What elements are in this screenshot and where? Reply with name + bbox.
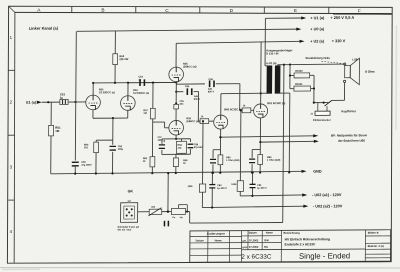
- svg-text:100n: 100n: [157, 140, 163, 142]
- svg-text:Ü 130 / 46: Ü 130 / 46: [266, 51, 279, 55]
- svg-text:1/2 E83CC (a): 1/2 E83CC (a): [99, 91, 115, 94]
- wire V6 grid riser: [239, 84, 241, 111]
- wire C53 to SRPP node: [146, 81, 177, 83]
- svg-text:07.2002: 07.2002: [249, 245, 259, 249]
- svg-text:(E88CC (a)): (E88CC (a)): [183, 65, 197, 68]
- svg-text:gez.: gez.: [242, 239, 247, 242]
- svg-text:D: D: [230, 8, 234, 14]
- node V6 anode: [260, 92, 262, 94]
- input arrow E1: [37, 101, 42, 104]
- svg-text:Name: Name: [215, 238, 223, 242]
- trimmer P1 10k: [149, 209, 162, 214]
- column divider tick: [328, 7, 330, 13]
- node BP measurement 1: [219, 136, 221, 138]
- node input/R51: [47, 101, 49, 103]
- resistor R5121: [290, 88, 294, 90]
- svg-text:GND: GND: [313, 170, 322, 174]
- svg-text:Blatt-Nr. 4 (a): Blatt-Nr. 4 (a): [368, 244, 384, 248]
- node R54/GND: [95, 172, 97, 174]
- svg-text:1µ 400 V: 1µ 400 V: [217, 187, 227, 190]
- svg-text:R5121: R5121: [295, 83, 303, 86]
- component C56: [174, 104, 179, 109]
- wire V5 grid riser: [197, 92, 199, 122]
- resistor R67: [237, 181, 243, 192]
- node V5 grid bias: [202, 120, 204, 122]
- measurement line BP 1: [219, 136, 314, 137]
- bias riser V5 grid: [202, 121, 204, 184]
- long vertical wire x=75 (+U0 branch): [74, 31, 77, 160]
- svg-text:Bezeichnung: Bezeichnung: [284, 231, 301, 235]
- capacitor C58 (cathode bypass 2): [189, 139, 191, 142]
- svg-text:Störableitung Heko: Störableitung Heko: [305, 56, 330, 60]
- -U02 (a1) rail: [240, 194, 303, 197]
- triode V3 SRPP upper: [169, 67, 184, 82]
- resistor R57 (V4 grid leak): [152, 83, 154, 109]
- title block outline: [190, 230, 391, 263]
- svg-text:1M: 1M: [143, 112, 146, 115]
- svg-text:100µ: 100µ: [118, 148, 124, 151]
- corner diagonal top-left: [9, 6, 15, 12]
- scan smudge right edge: [395, 25, 398, 130]
- headphone jack switch arm: [325, 100, 332, 106]
- svg-text:+ 250 V 0,5 A: + 250 V 0,5 A: [330, 15, 354, 20]
- row divider tick: [8, 199, 14, 201]
- grid stopper network C56: [175, 92, 177, 121]
- node R52/anode bus: [114, 82, 116, 84]
- output tube V6 6C33C: [254, 104, 268, 118]
- bias riser V6 grid: [239, 110, 242, 180]
- svg-text:100k: 100k: [231, 184, 237, 186]
- capacitor C52 (cathode bypass): [112, 140, 114, 145]
- title block horizontals right sub-block: [365, 235, 390, 237]
- svg-text:BP: Meßpunkte für Strom: BP: Meßpunkte für Strom: [331, 133, 368, 137]
- svg-text:+ U2 (a): + U2 (a): [310, 39, 325, 43]
- svg-text:1 Ohm (3W): 1 Ohm (3W): [267, 159, 281, 162]
- svg-text:C54: C54: [185, 85, 190, 88]
- GK wire to network: [138, 211, 150, 213]
- svg-text:E1 (a): E1 (a): [26, 101, 37, 105]
- svg-text:1/2 E83CC (a): 1/2 E83CC (a): [133, 92, 149, 95]
- svg-text:100k: 100k: [187, 186, 193, 188]
- svg-text:Datum: Datum: [196, 238, 205, 242]
- svg-text:gepr.: gepr.: [242, 246, 248, 249]
- transformer primary top lead to +U1: [264, 18, 266, 65]
- secondary top lead: [277, 65, 279, 66]
- resistor R59: [175, 154, 177, 158]
- wire R51 branch down: [50, 102, 52, 125]
- node GK/GND: [167, 172, 169, 174]
- node V4 anode: [175, 102, 177, 104]
- capacitor C63: [252, 148, 260, 150]
- svg-text:C55: C55: [208, 78, 213, 81]
- column divider tick: [71, 7, 73, 13]
- resistor R66: [199, 184, 205, 192]
- +U2 rail: [176, 41, 300, 43]
- scan edge shadow at bottom: [0, 267, 400, 269]
- wire to R54: [96, 139, 113, 141]
- anode bus wire y=82: [93, 81, 176, 83]
- +U1 rail: [265, 17, 302, 19]
- jack feed wire: [314, 102, 330, 104]
- capacitor C50 (decoupling electrolytic): [72, 162, 79, 163]
- cathode join V1-V2: [92, 110, 94, 119]
- GND rail: [51, 171, 302, 174]
- V3 anode riser to +U2: [175, 43, 177, 67]
- anode wire to transformer primary: [221, 92, 267, 94]
- inner frame line right of row numbers: [13, 12, 16, 262]
- node V2 anode: [127, 82, 129, 84]
- capacitor C59: [163, 140, 165, 142]
- GK connector pins: [126, 208, 128, 210]
- svg-text:47µ 63V: 47µ 63V: [194, 146, 203, 149]
- speaker return wire: [343, 82, 345, 100]
- node secondary/GND: [288, 171, 290, 173]
- svg-text:F: F: [358, 8, 361, 14]
- column divider tick: [199, 7, 201, 13]
- transformer primary winding bar: [267, 65, 273, 93]
- wire cathode down: [112, 118, 114, 140]
- title block horizontals mid: [242, 235, 282, 237]
- svg-text:- U02 (a2) - 120V: - U02 (a2) - 120V: [313, 204, 343, 208]
- resistor R53 (left drop): [151, 122, 153, 157]
- svg-text:1 Ohm (3W): 1 Ohm (3W): [226, 159, 240, 162]
- scan smudge bottom-left: [2, 268, 40, 270]
- capacitor C62: [213, 149, 220, 151]
- node R59/GND: [175, 172, 177, 174]
- svg-text:Single - Ended: Single - Ended: [299, 251, 350, 260]
- row divider tick: [8, 134, 14, 136]
- node jack switch: [323, 102, 325, 104]
- node C50/GND bus: [74, 173, 76, 175]
- capacitor C54 (coupling to V5 grid): [176, 91, 183, 93]
- svg-text:1µ 400 V: 1µ 400 V: [257, 187, 267, 190]
- column divider tick: [135, 7, 137, 13]
- svg-text:GK ein / aus: GK ein / aus: [117, 228, 132, 231]
- secondary return to GND: [289, 65, 291, 89]
- trimmer P2 with wiper: [171, 208, 185, 214]
- svg-text:47µ 350V: 47µ 350V: [81, 164, 92, 167]
- inner frame line below column letters: [15, 12, 393, 13]
- title block verticals: [207, 231, 209, 262]
- column divider tick: [263, 7, 265, 13]
- wire SRPP mid vertical: [175, 82, 177, 92]
- capacitor C51 (input coupling): [60, 99, 68, 104]
- node R chain tap: [289, 63, 291, 65]
- V2 anode lead: [127, 83, 129, 96]
- node V1 anode: [92, 82, 94, 84]
- svg-text:Linker Kanal (a): Linker Kanal (a): [29, 26, 59, 31]
- loudspeaker LSP: [345, 66, 351, 78]
- title block horizontals left section: [190, 235, 242, 237]
- svg-text:R58: R58: [178, 145, 183, 147]
- resistor R63 (V6 grid stopper): [240, 109, 243, 111]
- node cathode join: [112, 117, 114, 119]
- triode V2 (1/2 ECC): [121, 96, 136, 111]
- headphone jack body: [315, 111, 330, 115]
- svg-text:+ U1 (a): + U1 (a): [310, 16, 325, 20]
- feedback line down to GK network: [283, 65, 284, 223]
- transformer primary bottom lead: [267, 92, 269, 94]
- svg-text:Endstufe 2 x 6C33C: Endstufe 2 x 6C33C: [285, 242, 316, 246]
- svg-text:Blätter B: Blätter B: [368, 231, 379, 235]
- svg-text:+ 330 V: + 330 V: [332, 38, 346, 43]
- svg-text:LSP: LSP: [352, 57, 357, 61]
- svg-text:1M: 1M: [55, 129, 60, 133]
- svg-text:C56: C56: [179, 101, 184, 103]
- svg-text:1µ: 1µ: [60, 96, 64, 100]
- svg-text:(E88CC (a)): (E88CC (a)): [186, 120, 200, 123]
- resistor R52: [113, 54, 118, 65]
- wire to bottom feedback line: [189, 212, 191, 224]
- node C54 branch: [175, 91, 177, 93]
- V6 anode riser to +U2 rail: [260, 42, 262, 105]
- svg-text:GK: GK: [128, 201, 132, 203]
- wire R52 to anode bus: [114, 65, 116, 83]
- triode V4 SRPP lower: [169, 120, 184, 135]
- svg-text:22n: 22n: [179, 104, 184, 106]
- node R53/GND: [151, 172, 153, 174]
- resistor R5120: [290, 74, 294, 76]
- resistor R65 (cathode): [258, 155, 263, 165]
- secondary bottom lead: [277, 92, 290, 94]
- darker thick segment of band line at right: [333, 13, 392, 15]
- R52 anode load riser: [114, 31, 116, 54]
- measurement line BP 2: [261, 140, 315, 143]
- capacitor C53 (coupling): [139, 79, 141, 86]
- svg-text:GK: GK: [128, 189, 134, 193]
- resistor R62 (V5 grid stopper): [198, 120, 200, 122]
- capacitor C55 (coupling to V6 grid): [176, 83, 205, 85]
- svg-text:R5120: R5120: [295, 70, 303, 73]
- V5 cathode: [219, 129, 221, 154]
- svg-text:GW: GW: [264, 238, 269, 242]
- svg-text:R61 6C33C (a): R61 6C33C (a): [267, 101, 285, 105]
- svg-text:Klinkenstecker: Klinkenstecker: [313, 119, 331, 122]
- svg-text:2k2: 2k2: [84, 146, 89, 149]
- node trimmer wiper: [186, 210, 188, 212]
- svg-text:Name: Name: [266, 230, 274, 234]
- resistor R58: [180, 139, 182, 142]
- svg-text:Datum: Datum: [249, 231, 258, 235]
- svg-text:22k 2W: 22k 2W: [119, 57, 129, 61]
- svg-text:A-Ü1 (a): A-Ü1 (a): [266, 61, 276, 65]
- svg-text:Änderungen: Änderungen: [207, 232, 225, 236]
- svg-text:HV Einfach Röhrenschaltung: HV Einfach Röhrenschaltung: [285, 237, 330, 241]
- row divider tick: [9, 69, 15, 71]
- speaker hot wire: [284, 63, 345, 66]
- capacitor C65: [164, 221, 166, 227]
- output tube V5 6C33C: [214, 115, 228, 129]
- node feedback tap: [283, 64, 285, 66]
- speaker terminals: [344, 63, 346, 65]
- node V6 grid bias: [240, 109, 242, 111]
- svg-text:- U02 (a1) - 120V: - U02 (a1) - 120V: [312, 193, 342, 197]
- svg-text:8 Ohm: 8 Ohm: [365, 70, 375, 74]
- svg-text:C: C: [165, 8, 169, 14]
- resistor R51: [49, 125, 54, 136]
- GK ground leg: [167, 173, 169, 212]
- title block verticals (date section, stop at big row): [247, 231, 249, 250]
- node C52/GND: [111, 172, 113, 174]
- +U0 rail: [77, 29, 298, 31]
- resistor R64 (cathode): [218, 155, 223, 165]
- svg-text:630 V: 630 V: [194, 98, 201, 101]
- svg-text:+ U0 (a): + U0 (a): [310, 27, 325, 31]
- svg-text:07.2002: 07.2002: [249, 238, 259, 242]
- node V4 cathode: [175, 138, 177, 140]
- svg-text:R60 6C33C (a): R60 6C33C (a): [224, 107, 242, 111]
- transformer secondary winding bar: [275, 65, 281, 93]
- svg-text:Kopfhörer: Kopfhörer: [341, 109, 356, 113]
- svg-text:B: B: [101, 8, 104, 14]
- GK connector box: [121, 203, 138, 223]
- capacitor C60: [211, 173, 213, 184]
- -U02 (a2) rail: [202, 206, 304, 207]
- node BP measurement 2: [259, 141, 261, 143]
- V6 cathode: [259, 118, 261, 155]
- node +U0 feed / input wire: [74, 101, 76, 103]
- resistor R54 (cathode): [95, 140, 97, 142]
- svg-text:630 V: 630 V: [208, 90, 215, 93]
- capacitor C61: [252, 173, 254, 184]
- svg-text:E: E: [294, 8, 297, 14]
- svg-text:der Endröhren U60: der Endröhren U60: [338, 139, 365, 143]
- triode V1 (1/2 ECC): [86, 95, 101, 110]
- V1 anode lead: [92, 83, 94, 95]
- node jack feed: [313, 102, 315, 104]
- V4 cathode network: [175, 135, 177, 139]
- capacitor C57 (cathode bypass 1): [161, 139, 163, 144]
- svg-text:2 x 6C33C: 2 x 6C33C: [241, 254, 272, 261]
- wire input to tube V1 grid: [42, 101, 86, 103]
- node V3 cathode: [175, 81, 177, 83]
